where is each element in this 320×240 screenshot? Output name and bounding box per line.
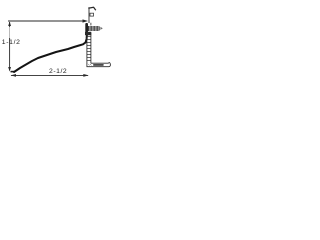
- svg-text:2-1/2: 2-1/2: [49, 68, 67, 75]
- svg-text:1-1/2: 1-1/2: [2, 39, 21, 46]
